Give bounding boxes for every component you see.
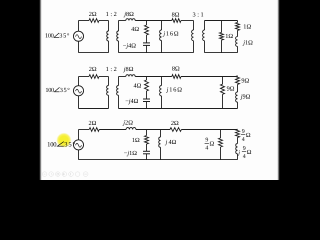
svg-text:j9Ω: j9Ω <box>240 94 251 101</box>
wire row3 top rail c <box>181 129 237 131</box>
resistor 2Ω (row 1 series) <box>89 19 99 23</box>
svg-text:j: j <box>237 150 240 157</box>
wire row2 top rail L-to-8Ω <box>135 76 172 78</box>
transformer T2 secondary coil (row 1) <box>204 21 206 31</box>
svg-text:8Ω: 8Ω <box>172 11 180 18</box>
white slide area <box>40 0 279 180</box>
inductor j9Ω right branch (row 2) <box>236 92 238 102</box>
inductor j9/4 Ω right branch (row 3) <box>236 144 238 154</box>
resistor 8Ω (row 2 series) <box>172 75 181 79</box>
wire row3 top rail source-to-R <box>79 129 90 131</box>
svg-text:9Ω: 9Ω <box>241 78 249 85</box>
svg-text:9: 9 <box>242 129 245 135</box>
wire row3 top rail a <box>99 129 126 131</box>
svg-text:9: 9 <box>205 137 208 143</box>
svg-text:2Ω: 2Ω <box>89 66 97 73</box>
svg-text:Ω: Ω <box>210 141 215 148</box>
wire row1 bottom rail loop1 <box>79 52 109 54</box>
resistor 1Ω mid branch (row 1) <box>221 21 223 33</box>
svg-text:1 : 2: 1 : 2 <box>106 11 117 18</box>
svg-text:4Ω: 4Ω <box>131 26 139 33</box>
svg-text:8Ω: 8Ω <box>172 65 180 72</box>
resistor 9/4 Ω mid branch (row 3) <box>220 130 222 139</box>
svg-text:2Ω: 2Ω <box>89 11 97 18</box>
wire row1 loop3 bottom rail <box>205 52 238 54</box>
inductor j1Ω right branch (row 1) <box>236 37 238 47</box>
branch 4Ω resistor (row 1) <box>146 21 148 26</box>
resistor 2Ω (row 3 series left) <box>89 128 99 132</box>
wire row1 top rail source-to-R <box>79 20 90 22</box>
inductor j8Ω (row 1 series) <box>126 19 135 21</box>
svg-text:4: 4 <box>242 137 245 143</box>
wire row2 bottom rail <box>119 108 238 110</box>
wire row1 top rail R-to-T1 <box>99 20 109 22</box>
inductor j8Ω (row 2 series) <box>126 75 135 77</box>
wire row1 bottom rail loop2 <box>119 52 194 54</box>
svg-text:j16Ω: j16Ω <box>166 86 183 93</box>
inductor j2Ω (row 3 series) <box>126 127 136 129</box>
wire row2 top rail R-to-T1 <box>99 76 109 78</box>
resistor 8Ω (row 1 series) <box>172 19 181 23</box>
branch 4Ω resistor (row 2) <box>146 77 148 81</box>
svg-text:1Ω: 1Ω <box>243 24 251 31</box>
resistor 2Ω (row 2 series) <box>89 75 99 79</box>
resistor 9/4 Ω right branch (row 3) <box>237 128 239 130</box>
svg-text:3 : 1: 3 : 1 <box>192 11 203 18</box>
wire row1 top rail 8Ω-to-T2 <box>181 20 194 22</box>
svg-text:9: 9 <box>243 146 246 152</box>
resistor 1Ω right branch (row 1) <box>237 21 239 23</box>
voltage source Vs1 (row 1 AC source) <box>78 21 80 53</box>
yellow highlight marker (row 3) <box>56 133 71 148</box>
svg-text:35°: 35° <box>60 87 71 94</box>
wire row3 top rail b <box>136 129 170 131</box>
inductor j16Ω branch (row 1) <box>161 21 163 31</box>
svg-text:35°: 35° <box>59 33 70 40</box>
svg-text:1Ω: 1Ω <box>132 137 140 144</box>
svg-text:j8Ω: j8Ω <box>123 11 134 18</box>
svg-text:j2Ω: j2Ω <box>122 119 133 126</box>
svg-text:100: 100 <box>45 33 54 40</box>
wire row2 bottom rail loop1 <box>79 108 109 110</box>
svg-text:9Ω: 9Ω <box>227 86 235 93</box>
svg-text:4: 4 <box>205 146 208 152</box>
svg-text:Ω: Ω <box>247 149 252 156</box>
svg-text:1Ω: 1Ω <box>225 33 233 40</box>
voltage source Vs2 (row 2 AC source) <box>78 77 80 109</box>
resistor 9Ω right branch (row 2) <box>237 75 239 78</box>
transformer T1 primary coil (row 2) <box>108 77 110 86</box>
wire row2 top rail source-to-R <box>79 76 90 78</box>
transformer T2 primary coil (row 1) <box>193 21 195 31</box>
svg-text:Ω: Ω <box>246 132 251 139</box>
resistor 9Ω mid branch (row 2) <box>222 77 224 85</box>
inductor j4Ω branch (row 3) <box>160 130 162 138</box>
branch 1Ω resistor (row 3) <box>146 130 148 136</box>
svg-text:1 : 2: 1 : 2 <box>106 66 117 73</box>
wire row1 loop3 top rail <box>205 20 238 22</box>
svg-text:2Ω: 2Ω <box>88 120 96 127</box>
inductor j16Ω branch (row 2) <box>161 77 163 86</box>
wire row1 top rail L-to-8Ω <box>135 20 172 22</box>
wire row2 top rail right <box>181 76 238 78</box>
svg-text:100: 100 <box>45 87 54 94</box>
capacitor -j4Ω (row 2) <box>143 98 150 100</box>
capacitor -j1Ω (row 3) <box>143 150 150 152</box>
svg-text:−j4Ω: −j4Ω <box>123 42 136 49</box>
video player control buttons (faint) <box>42 172 47 177</box>
capacitor -j4Ω (row 1) <box>143 42 150 44</box>
wire row3 bottom rail <box>79 159 238 161</box>
wire row2 top rail T1-to-L <box>119 76 126 78</box>
svg-text:j16Ω: j16Ω <box>162 31 178 38</box>
svg-text:j1Ω: j1Ω <box>242 39 253 46</box>
transformer T1 secondary coil (row 1) <box>118 21 120 32</box>
svg-text:−j4Ω: −j4Ω <box>125 98 138 105</box>
voltage source Vs3 (row 3 AC source) <box>78 130 80 160</box>
svg-text:−j1Ω: −j1Ω <box>124 150 137 157</box>
transformer T1 primary coil (row 1) <box>108 21 110 32</box>
svg-text:100: 100 <box>47 141 57 148</box>
wire row1 top rail T1-to-L <box>119 20 126 22</box>
svg-text:2Ω: 2Ω <box>171 120 179 127</box>
svg-text:4: 4 <box>243 154 246 160</box>
svg-text:j8Ω: j8Ω <box>123 66 134 73</box>
transformer T1 secondary coil (row 2) <box>118 77 120 86</box>
svg-text:j 4Ω: j 4Ω <box>165 139 177 146</box>
resistor 2Ω (row 3 series right) <box>170 128 181 132</box>
svg-text:4Ω: 4Ω <box>133 83 141 90</box>
